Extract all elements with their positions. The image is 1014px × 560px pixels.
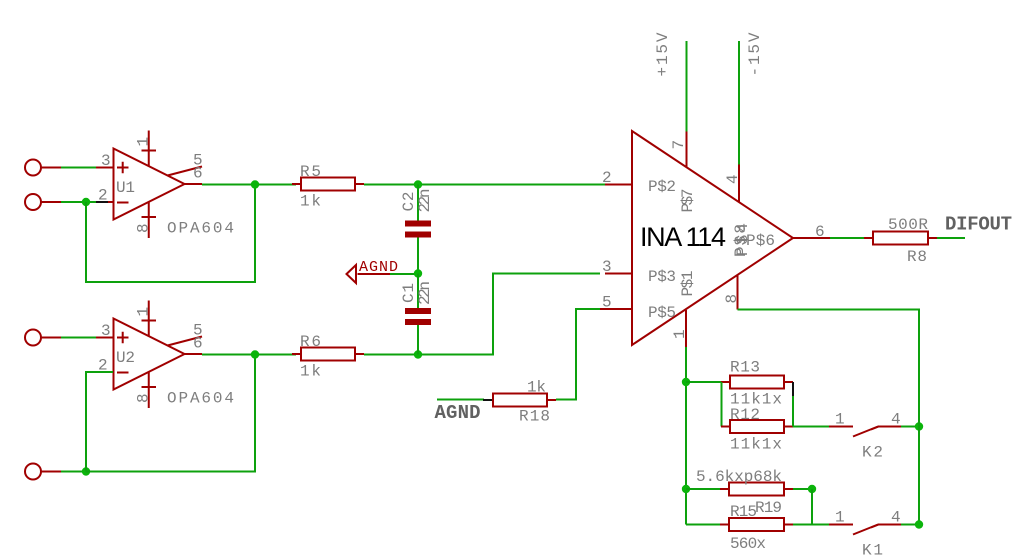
svg-text:+15V: +15V: [654, 32, 672, 76]
svg-text:6: 6: [193, 165, 203, 183]
input connector pad 4 (to U2 feedback): [25, 464, 61, 480]
wire: R15 to switch K1: [793, 524, 829, 526]
svg-text:R19: R19: [755, 499, 782, 517]
svg-text:AGND: AGND: [435, 402, 481, 424]
node: junction R5/C2: [414, 180, 422, 188]
INA114 pin P$8 (gain set): [723, 223, 752, 310]
INA114 pin P$5: [600, 294, 676, 323]
input connector pad 3 (to U2 +): [25, 330, 61, 346]
svg-text:K2: K2: [862, 444, 883, 462]
wire: INA114 pin8 to right rail: [738, 310, 920, 525]
node: junction pin1/R13/R12: [682, 378, 690, 386]
resistor R15 (560x): [720, 518, 793, 531]
wire: U1 output to R5: [202, 184, 296, 186]
U1 pin 6 (output): [185, 165, 203, 185]
op-amp U2: [114, 319, 185, 390]
svg-text:22n: 22n: [416, 281, 434, 305]
svg-text:P$5: P$5: [648, 304, 676, 322]
ground AGND (supply arrow): [347, 259, 399, 283]
svg-text:P$6: P$6: [746, 232, 775, 250]
svg-text:R18: R18: [519, 408, 550, 426]
wire: left rail to R15: [686, 524, 720, 526]
INA114 pin P$1 (gain set): [671, 271, 697, 348]
INA114 pin P$6 (output): [746, 223, 830, 250]
svg-text:R13: R13: [730, 359, 760, 377]
wire: INA114 output to R8: [830, 237, 866, 239]
resistor R13 (11k1x): [721, 376, 793, 389]
svg-text:3: 3: [101, 152, 111, 170]
svg-text:6: 6: [815, 223, 825, 241]
svg-text:1k: 1k: [300, 363, 321, 381]
wire: K1 to right rail: [901, 524, 919, 526]
node: junction AGND/C1/C2: [414, 269, 422, 277]
wire: left rail to R13: [686, 381, 722, 383]
svg-text:1k: 1k: [527, 379, 546, 397]
op-amp U1: [114, 149, 185, 220]
supply +15V: [654, 32, 687, 131]
U2 pin 8 (bottom, offset trim): [135, 372, 157, 408]
resistor R5 (1k): [292, 178, 364, 191]
U2 pin 3 (non-inverting input): [96, 322, 114, 340]
svg-text:4: 4: [891, 509, 901, 527]
svg-text:6: 6: [193, 335, 203, 353]
svg-text:P$2: P$2: [648, 178, 676, 196]
resistor R12 (11k1x): [721, 420, 793, 433]
U1 pin 2 (inverting input): [96, 187, 114, 205]
svg-text:8: 8: [135, 223, 153, 233]
INA114 pin P$2: [602, 169, 676, 196]
svg-text:1: 1: [835, 509, 845, 527]
wire: left rail to R19: [686, 488, 720, 490]
input connector pad 1 (to U1 +): [25, 160, 61, 176]
svg-text:R6: R6: [300, 333, 321, 351]
U2 pin 6 (output): [185, 335, 203, 355]
svg-text:1: 1: [835, 411, 845, 429]
U1 pin 1 (top, offset trim): [135, 131, 157, 167]
wire: pad4 to U2 feedback node: [61, 471, 86, 473]
node: junction at U2 feedback: [82, 467, 90, 475]
wire: R8 to DIFOUT: [937, 237, 965, 239]
supply -15V: [739, 32, 764, 164]
op-amp U3 INA114 instrumentation amplifier: [632, 131, 793, 345]
svg-text:22n: 22n: [416, 189, 434, 213]
INA114 pin P$4 (V-): [724, 165, 742, 202]
svg-text:5: 5: [602, 294, 612, 312]
wire: pad2 to U1 pin2: [61, 201, 96, 203]
node: junction R6/C1: [414, 350, 422, 358]
node: junction K2/right rail: [915, 422, 923, 430]
U1 pin 3 (non-inverting input): [96, 152, 114, 170]
capacitor C1 (22n): [405, 308, 431, 325]
svg-text:2: 2: [98, 187, 108, 205]
svg-text:U1: U1: [116, 179, 135, 197]
svg-text:U2: U2: [116, 349, 135, 367]
svg-text:500R: 500R: [888, 216, 928, 234]
svg-text:2: 2: [602, 169, 612, 187]
wire: C2 top connection: [417, 185, 419, 222]
resistor R6 (1k): [292, 348, 364, 361]
svg-text:1: 1: [671, 329, 689, 339]
wire: pad3 to U2 pin3: [61, 337, 96, 339]
wire: U2 output to R6: [202, 354, 296, 356]
svg-text:4: 4: [891, 411, 901, 429]
svg-text:8: 8: [135, 393, 153, 403]
svg-text:1: 1: [135, 137, 153, 147]
wire: pad1 to U1 pin3: [61, 167, 96, 169]
wire: C1 bottom to R6 node: [417, 325, 419, 355]
INA114 pin P$7 (V+): [670, 132, 697, 213]
svg-text:K1: K1: [862, 542, 883, 560]
svg-text:5.6kxp68k: 5.6kxp68k: [696, 468, 782, 486]
resistor R18 (1k): [483, 394, 556, 407]
wire: R6 to INA114 pin3: [364, 274, 600, 355]
svg-text:4: 4: [724, 174, 742, 184]
wire: C1 top connection: [417, 274, 419, 309]
wire: AGND stub to node: [390, 273, 418, 275]
U2 pin 2 (inverting input): [98, 357, 114, 375]
svg-text:R12: R12: [730, 406, 760, 424]
svg-text:R5: R5: [300, 163, 321, 181]
wire: R19 right to drop node: [793, 488, 812, 490]
input connector pad 2 (to U1 -): [25, 194, 61, 210]
node: junction at U1 inverting input: [82, 198, 90, 206]
svg-text:8: 8: [723, 294, 741, 304]
wire: U2 inverting input run: [86, 372, 113, 472]
wire: R12 to switch K2: [793, 426, 829, 428]
node: junction K1/right rail: [915, 520, 923, 528]
resistor R19 (5.6kxp68k): [720, 483, 793, 496]
svg-text:3: 3: [602, 258, 612, 276]
wire: R13 left drop to R12: [721, 382, 723, 427]
U2 pin 1 (top, offset trim): [135, 301, 157, 337]
wire: R5 to INA114 pin2: [364, 184, 605, 186]
node: junction at U2 output: [251, 350, 259, 358]
wire: AGND net to R18: [437, 399, 484, 401]
svg-text:1k: 1k: [300, 193, 321, 211]
resistor R8 (500R): [864, 232, 937, 245]
wire: R18 to INA114 pin5: [556, 309, 600, 400]
svg-text:7: 7: [670, 140, 688, 150]
node: junction at U1 output: [251, 180, 259, 188]
U1 pin 8 (bottom, offset trim): [135, 202, 157, 238]
node: junction left rail/R19: [682, 485, 690, 493]
wire: K2 to right rail: [901, 426, 919, 428]
U2 pin 5 (comp): [168, 322, 203, 346]
wire: R13 right drop to R12 (black segment): [792, 382, 794, 427]
svg-text:DIFOUT: DIFOUT: [945, 214, 1012, 236]
node: junction R19/drop: [808, 485, 816, 493]
svg-text:INA 114: INA 114: [640, 222, 726, 252]
svg-text:P$1: P$1: [679, 271, 697, 297]
wire: U2 feedback bottom run: [86, 355, 255, 472]
wire: gain ladder left rail: [685, 382, 687, 525]
switch K2: [829, 411, 901, 462]
svg-text:P$7: P$7: [679, 189, 697, 213]
svg-text:11k1x: 11k1x: [730, 436, 782, 454]
wire: C2 bottom to AGND node: [417, 238, 419, 274]
svg-text:R15: R15: [730, 503, 757, 521]
svg-text:P$3: P$3: [648, 268, 676, 286]
capacitor C2 (22n): [405, 221, 431, 238]
svg-text:-15V: -15V: [746, 32, 764, 76]
wire: R19 drop to R15 output wire: [811, 489, 813, 525]
wire: U1 feedback loop (output to inverting input): [86, 185, 255, 283]
svg-text:560x: 560x: [730, 535, 766, 553]
U1 pin 5 (comp): [168, 152, 203, 176]
wire: INA114 pin1 down to gain ladder: [685, 347, 687, 382]
INA114 pin P$3: [602, 258, 676, 286]
svg-text:3: 3: [101, 322, 111, 340]
svg-text:1: 1: [135, 307, 153, 317]
svg-text:R8: R8: [907, 248, 927, 266]
switch K1: [829, 509, 901, 560]
